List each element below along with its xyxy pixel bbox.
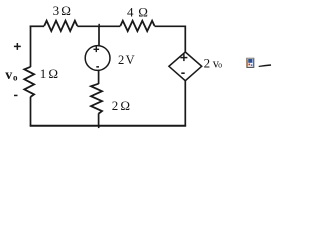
svg-text:2: 2 xyxy=(204,56,211,71)
svg-text:Ω: Ω xyxy=(120,98,130,113)
svg-text:Ω: Ω xyxy=(48,66,58,81)
svg-text:V: V xyxy=(126,53,135,67)
svg-text:3: 3 xyxy=(53,3,60,18)
svg-text:v: v xyxy=(5,68,12,83)
svg-text:o: o xyxy=(13,73,18,83)
svg-text:Ω: Ω xyxy=(61,3,71,18)
svg-text:Ω: Ω xyxy=(138,4,148,19)
svg-text:1: 1 xyxy=(40,66,47,81)
svg-text:2: 2 xyxy=(112,98,119,113)
svg-text:2: 2 xyxy=(118,53,124,67)
svg-text:o: o xyxy=(218,60,222,69)
svg-text:4: 4 xyxy=(127,4,134,19)
